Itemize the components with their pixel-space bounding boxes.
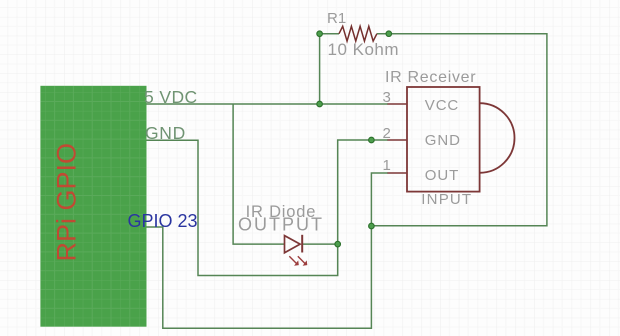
wire: diode cathode to GND junction: [302, 243, 338, 245]
svg-text:GPIO 23: GPIO 23: [128, 211, 198, 231]
pin 1 stub: [388, 172, 407, 174]
LED D1 triangle: [285, 236, 301, 253]
op IC U1 IR receiver body: [407, 87, 480, 192]
IR receiver dome arc: [480, 103, 515, 173]
wire: R1 left lead: [320, 33, 339, 35]
svg-text:GND: GND: [145, 123, 186, 143]
wire: 5 VDC riser to R1 left: [319, 34, 321, 104]
svg-text:OUT: OUT: [425, 167, 459, 184]
svg-text:R1: R1: [327, 10, 346, 27]
svg-text:GND: GND: [425, 132, 461, 149]
svg-text:VCC: VCC: [425, 97, 459, 114]
svg-text:5 VDC: 5 VDC: [144, 87, 198, 107]
wire: 5 VDC net from header to pin 3: [147, 103, 389, 105]
junction dot at R1 left: [317, 31, 323, 37]
svg-text:IR Receiver: IR Receiver: [385, 69, 476, 86]
wire: OUT junction up to pin 1: [371, 173, 388, 226]
wire: GND net from header around bottom to diode cathode and pin 2: [147, 140, 389, 276]
resistor R1: [339, 26, 377, 41]
svg-text:RPi GPIO: RPi GPIO: [52, 143, 82, 262]
wire: R1 right to corner and down to OUT net: [371, 34, 547, 226]
junction dot at R1 right: [386, 31, 392, 37]
LED emission arrow 1: [289, 256, 299, 265]
junction dot on GND net at pin 2: [369, 137, 375, 143]
svg-text:OUTPUT: OUTPUT: [238, 215, 324, 235]
svg-text:2: 2: [383, 125, 391, 142]
junction dot on 5 VDC net: [317, 101, 323, 107]
RPi GPIO header block: [40, 86, 146, 327]
junction dot on OUT net: [369, 223, 375, 229]
pin 2 stub: [388, 139, 407, 141]
LED emission arrow 2: [298, 256, 308, 265]
junction dot at diode cathode: [335, 241, 341, 247]
svg-text:1: 1: [383, 157, 391, 174]
svg-text:10 Kohm: 10 Kohm: [328, 40, 400, 59]
wire: OUT junction down around to GPIO 23: [147, 226, 372, 328]
LED D1 cathode bar: [301, 235, 303, 253]
svg-text:INPUT: INPUT: [421, 191, 472, 208]
svg-text:3: 3: [383, 89, 391, 106]
wire: 5 VDC drop to IR diode anode: [233, 104, 284, 244]
pin 3 stub: [388, 103, 407, 105]
